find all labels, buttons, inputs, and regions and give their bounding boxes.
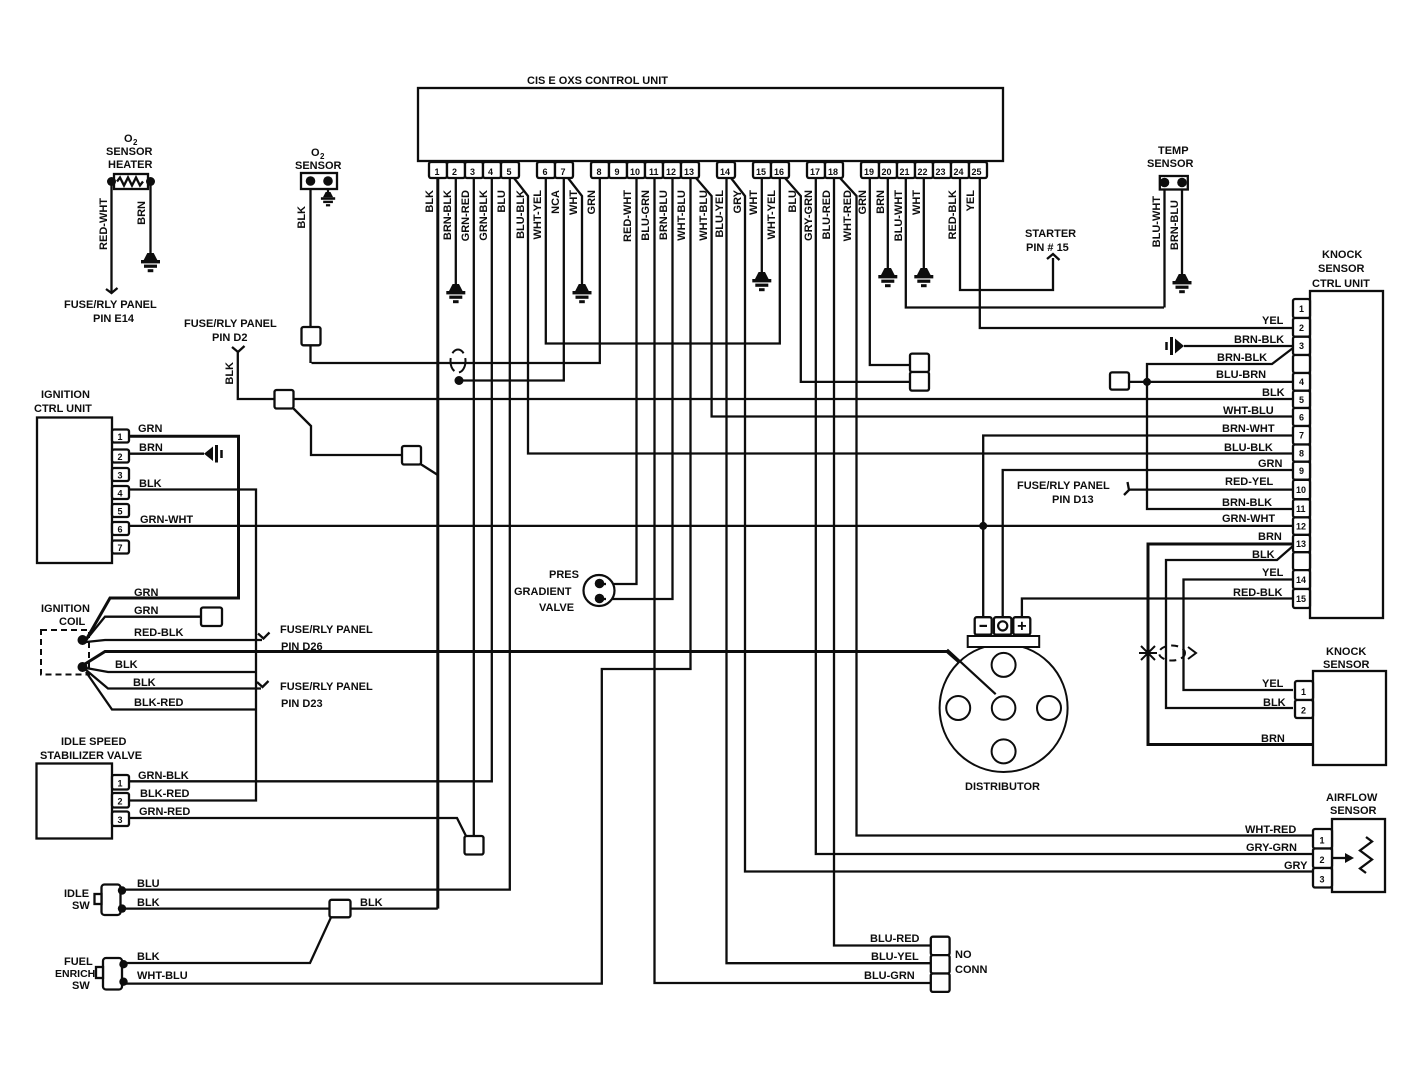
svg-text:19: 19	[864, 167, 874, 177]
svg-text:PIN D13: PIN D13	[1052, 494, 1094, 506]
control unit pin 15	[753, 162, 771, 178]
control unit pin 7	[555, 162, 573, 178]
control unit pin 12	[663, 162, 681, 178]
wire pin11 BLU-GRN to no-conn	[655, 178, 931, 983]
connector box on branch	[402, 446, 421, 465]
shield loop ellipse on O2 wire	[451, 350, 466, 373]
svg-text:BRN: BRN	[139, 442, 163, 454]
svg-text:GRN: GRN	[1258, 458, 1283, 470]
wire O2 BLK from connector to junction	[309, 345, 311, 363]
wire BLK coil to fuse panel D23	[86, 670, 261, 689]
svg-text:3: 3	[1299, 341, 1304, 351]
svg-text:GRN-BLK: GRN-BLK	[138, 770, 189, 782]
svg-text:FUSE/RLY PANEL: FUSE/RLY PANEL	[280, 624, 373, 636]
wire BRN knock pin13 to knock sensor	[1148, 544, 1313, 745]
svg-text:GRADIENT: GRADIENT	[514, 586, 572, 598]
svg-text:5: 5	[507, 167, 512, 177]
wire pin25 YEL to knock ctrl pin 2	[980, 178, 1293, 328]
svg-text:GRN: GRN	[134, 587, 159, 599]
svg-text:BLU: BLU	[137, 878, 160, 890]
starter arrow	[1047, 254, 1060, 260]
wire pin1 BLK vertical	[436, 178, 439, 909]
stabilizer valve pin 2	[112, 793, 129, 808]
svg-text:CONN: CONN	[955, 964, 987, 976]
wire branch from D2 connector down to pin1 BLK wire	[294, 409, 438, 476]
knock sensor ctrl unit	[1310, 249, 1383, 618]
svg-text:IDLE: IDLE	[64, 888, 89, 900]
svg-text:PIN D2: PIN D2	[212, 332, 247, 344]
wire BLK fuel enrich to idle BLK connector	[124, 917, 332, 963]
svg-text:PIN # 15: PIN # 15	[1026, 242, 1069, 254]
svg-text:9: 9	[1299, 466, 1304, 476]
control unit pin 21	[897, 162, 915, 178]
wire RED-BLK coil to fuse panel D26	[86, 640, 262, 642]
svg-text:GRN: GRN	[586, 190, 598, 215]
svg-text:TEMP: TEMP	[1158, 145, 1189, 157]
svg-text:13: 13	[684, 167, 694, 177]
knock ctrl pin 8	[1293, 445, 1310, 462]
svg-text:GRY-GRN: GRY-GRN	[803, 190, 815, 241]
wire pin7 NCA vertical	[459, 178, 564, 381]
svg-text:WHT-BLU: WHT-BLU	[676, 190, 688, 241]
svg-text:5: 5	[118, 507, 123, 517]
svg-text:WHT: WHT	[748, 190, 760, 215]
svg-text:22: 22	[918, 167, 928, 177]
control unit pin 6	[537, 162, 555, 178]
wire BLK coil to pin4 line	[86, 668, 256, 672]
node junction GRN-WHT with distributor minus wire	[979, 522, 987, 530]
wire BLU diagonal from pin16	[785, 178, 910, 382]
svg-text:24: 24	[954, 167, 964, 177]
wire WHT-RED diagonal from pin18 to airflow pin1	[840, 178, 1313, 836]
svg-text:FUSE/RLY PANEL: FUSE/RLY PANEL	[1017, 480, 1110, 492]
svg-text:WHT-BLU: WHT-BLU	[1223, 405, 1274, 417]
wire pin20 BRN to ground	[887, 178, 889, 268]
ignition pin 7	[112, 541, 129, 554]
svg-text:FUEL: FUEL	[64, 956, 93, 968]
svg-text:SW: SW	[72, 980, 90, 992]
svg-text:15: 15	[756, 167, 766, 177]
svg-text:SW: SW	[72, 900, 90, 912]
svg-text:7: 7	[118, 543, 123, 553]
svg-text:3: 3	[118, 471, 123, 481]
control unit pin 24	[951, 162, 969, 178]
stabilizer valve pin 1	[112, 775, 129, 790]
wire pin19 GRN to connector	[870, 178, 910, 365]
svg-text:BLU-YEL: BLU-YEL	[714, 190, 726, 238]
svg-text:O: O	[124, 133, 133, 145]
wire BRN-BLU temp to ground	[1181, 190, 1183, 275]
svg-text:IGNITION: IGNITION	[41, 389, 90, 401]
idle speed stabilizer valve	[37, 736, 143, 839]
noise suppressor knock pin3	[1167, 337, 1185, 355]
svg-text:10: 10	[630, 167, 640, 177]
svg-text:2: 2	[1299, 323, 1304, 333]
knock ctrl pin 5	[1293, 391, 1310, 408]
wire YEL knock pin14 to knock sensor pin1	[1184, 580, 1294, 691]
svg-text:SENSOR: SENSOR	[1147, 158, 1194, 170]
wire GRN-RED valve pin3 to connector	[129, 818, 466, 836]
knock ctrl pin 14	[1293, 570, 1310, 589]
idle switch	[64, 885, 126, 916]
wire GRY diagonal from pin14 to airflow pin3	[731, 178, 1313, 872]
svg-text:BLU-BRN: BLU-BRN	[1216, 369, 1266, 381]
ground O2 sensor	[327, 189, 329, 192]
knock ctrl blank pin	[1293, 552, 1310, 570]
svg-text:GRY: GRY	[1284, 860, 1308, 872]
svg-text:1: 1	[435, 167, 440, 177]
svg-text:IGNITION: IGNITION	[41, 603, 90, 615]
svg-text:STARTER: STARTER	[1025, 228, 1076, 240]
harness connector two-slot	[910, 354, 929, 391]
wire RED-YEL fuse D13 to knock pin10	[1129, 488, 1293, 490]
control unit pin 23	[933, 162, 951, 178]
svg-text:20: 20	[882, 167, 892, 177]
svg-text:RED-WHT: RED-WHT	[622, 190, 634, 242]
svg-text:16: 16	[774, 167, 784, 177]
svg-text:5: 5	[1299, 395, 1304, 405]
wire BRN from heater to ground	[149, 184, 151, 253]
svg-text:2: 2	[118, 797, 123, 807]
svg-text:WHT-BLU: WHT-BLU	[698, 190, 710, 241]
svg-text:21: 21	[900, 167, 910, 177]
svg-text:HEATER: HEATER	[108, 159, 152, 171]
svg-text:1: 1	[1320, 836, 1325, 846]
svg-text:BRN-BLK: BRN-BLK	[442, 190, 454, 240]
svg-text:KNOCK: KNOCK	[1326, 646, 1366, 658]
wire distributor center to knock ctrl pin 9	[1003, 470, 1293, 617]
connector box GRN-RED	[465, 836, 484, 855]
pres gradient valve	[514, 569, 615, 614]
knock ctrl pin 13	[1293, 535, 1310, 552]
connector box on O2 wire	[302, 327, 321, 345]
connector box on D2 line	[275, 390, 294, 409]
svg-text:GRN: GRN	[857, 190, 869, 215]
svg-text:CIS E OXS CONTROL UNIT: CIS E OXS CONTROL UNIT	[527, 75, 668, 87]
node shield drain dot	[455, 376, 464, 385]
wire BLK ign pin4 down to stabilizer valve pin2	[129, 490, 256, 801]
control unit pin 13	[681, 162, 699, 178]
ground temp sensor	[1173, 274, 1192, 293]
ignition pin 4	[112, 486, 129, 499]
wire BLK knock pin13 to knock sensor pin2	[1166, 546, 1293, 708]
svg-text:CTRL UNIT: CTRL UNIT	[34, 403, 92, 415]
wire pin3 GRN-RED vertical	[473, 178, 475, 836]
svg-text:ENRICH: ENRICH	[55, 968, 95, 980]
svg-text:PRES: PRES	[549, 569, 579, 581]
svg-text:BLK: BLK	[137, 951, 160, 963]
shielded cable marker on BRN wire	[1139, 644, 1196, 663]
svg-text:23: 23	[936, 167, 946, 177]
svg-text:O: O	[311, 147, 320, 159]
wire BLK from fuse panel D2 to knock ctrl pin 5	[238, 352, 1293, 399]
svg-text:YEL: YEL	[1262, 678, 1284, 690]
wire pin6 WHT-YEL link	[546, 178, 780, 344]
knock ctrl pin 12	[1293, 517, 1310, 535]
ground pin2	[446, 284, 465, 303]
noise suppressor on BRN wire	[204, 445, 222, 463]
svg-text:BLK: BLK	[224, 362, 236, 385]
svg-text:BLU-BLK: BLU-BLK	[515, 190, 527, 239]
connector box GRN	[201, 608, 222, 627]
svg-text:BLK: BLK	[139, 478, 162, 490]
svg-text:9: 9	[615, 167, 620, 177]
svg-text:BLK: BLK	[360, 897, 383, 909]
knock ctrl pin 4	[1293, 373, 1310, 391]
knock sensor	[1313, 646, 1386, 765]
svg-text:RED-BLK: RED-BLK	[947, 190, 959, 240]
wire pin24 RED-BLK to starter	[960, 178, 1053, 290]
svg-text:RED-BLK: RED-BLK	[134, 627, 184, 639]
svg-text:SENSOR: SENSOR	[295, 160, 342, 172]
control unit pin 10	[627, 162, 645, 178]
svg-text:12: 12	[666, 167, 676, 177]
svg-text:SENSOR: SENSOR	[1318, 263, 1365, 275]
control unit pin 16	[771, 162, 789, 178]
svg-text:PIN D23: PIN D23	[281, 698, 323, 710]
ignition control unit	[34, 389, 112, 563]
control unit pin 19	[861, 162, 879, 178]
wire BLU-BLK diagonal from pin5 to knock pin 8	[514, 178, 1293, 454]
knock ctrl pin 7	[1293, 426, 1310, 445]
svg-text:BRN-BLU: BRN-BLU	[1169, 200, 1181, 250]
svg-text:25: 25	[972, 167, 982, 177]
wire pin4 GRN-BLK vertical to valve pin1	[129, 178, 492, 781]
svg-text:14: 14	[720, 167, 730, 177]
svg-text:GRN: GRN	[134, 605, 159, 617]
control unit pin 14	[717, 162, 735, 178]
ignition pin 2	[112, 450, 129, 463]
knock ctrl pin 15	[1293, 589, 1310, 608]
svg-text:RED-WHT: RED-WHT	[98, 198, 110, 250]
svg-text:WHT-YEL: WHT-YEL	[532, 190, 544, 240]
O2 sensor	[295, 147, 342, 189]
svg-text:WHT-RED: WHT-RED	[842, 190, 854, 241]
svg-text:BRN: BRN	[1258, 531, 1282, 543]
airflow sensor	[1326, 792, 1385, 892]
svg-text:1: 1	[118, 779, 123, 789]
CIS E OXS control unit U1	[418, 75, 1003, 161]
wire GRN ign pin1 to coil	[86, 436, 239, 640]
harness connector single	[1110, 372, 1129, 389]
ignition pin 1	[112, 430, 129, 443]
knock ctrl pin 2	[1293, 318, 1310, 337]
svg-text:GRN-RED: GRN-RED	[460, 190, 472, 241]
svg-text:12: 12	[1296, 522, 1306, 532]
svg-text:BLK-RED: BLK-RED	[140, 788, 190, 800]
svg-text:PIN E14: PIN E14	[93, 313, 135, 325]
control unit pin 22	[915, 162, 933, 178]
svg-text:BLK: BLK	[1263, 697, 1286, 709]
svg-text:YEL: YEL	[1262, 567, 1284, 579]
knock ctrl pin 1	[1293, 299, 1310, 318]
svg-text:GRY-GRN: GRY-GRN	[1246, 842, 1297, 854]
wire pin12 BRN-BLU to pres gradient valve	[606, 178, 673, 599]
control unit pin 11	[645, 162, 663, 178]
fuel enrich switch	[55, 956, 128, 992]
svg-text:BRN-BLK: BRN-BLK	[1217, 352, 1267, 364]
svg-text:17: 17	[810, 167, 820, 177]
temp sensor	[1147, 145, 1194, 190]
stabilizer valve pin 3	[112, 812, 129, 827]
airflow pin 3	[1313, 868, 1332, 888]
svg-text:BLU-GRN: BLU-GRN	[864, 970, 915, 982]
wire distributor plus to knock ctrl pin 15	[1022, 599, 1293, 618]
svg-text:FUSE/RLY PANEL: FUSE/RLY PANEL	[280, 681, 373, 693]
svg-text:18: 18	[828, 167, 838, 177]
svg-text:SENSOR: SENSOR	[106, 146, 153, 158]
wire valve top dot stub	[600, 583, 607, 585]
svg-text:BLU-WHT: BLU-WHT	[893, 190, 905, 242]
svg-text:6: 6	[543, 167, 548, 177]
wire pin15 WHT to ground	[761, 178, 763, 272]
ground pin15	[752, 272, 771, 291]
svg-text:BLU-RED: BLU-RED	[870, 933, 920, 945]
wire pin22 WHT to ground	[923, 178, 925, 268]
svg-text:BLK: BLK	[115, 659, 138, 671]
wire WHT-BLU second diagonal from pin13 to knock pin 6	[696, 178, 1293, 417]
svg-text:GRN-WHT: GRN-WHT	[140, 514, 193, 526]
svg-text:3: 3	[470, 167, 475, 177]
svg-text:SENSOR: SENSOR	[1330, 805, 1377, 817]
svg-text:DISTRIBUTOR: DISTRIBUTOR	[965, 781, 1040, 793]
svg-text:14: 14	[1296, 575, 1306, 585]
svg-text:BRN-BLU: BRN-BLU	[658, 190, 670, 240]
no-conn connector	[931, 937, 988, 992]
wire GRN coil to connector box	[86, 617, 201, 640]
svg-text:SENSOR: SENSOR	[1323, 659, 1370, 671]
wire RED-WHT from heater to fuse panel E14	[110, 184, 112, 293]
knock ctrl pin 10	[1293, 480, 1310, 500]
knock ctrl pin 3	[1293, 337, 1310, 355]
wire BLK from O2 sensor down to connector	[309, 189, 311, 327]
svg-text:WHT: WHT	[911, 190, 923, 215]
ground pin20	[878, 268, 897, 287]
svg-text:7: 7	[1299, 431, 1304, 441]
svg-text:BLU-BLK: BLU-BLK	[1224, 442, 1273, 454]
airflow pin 1	[1313, 829, 1332, 849]
ignition pin 3	[112, 468, 129, 481]
wire pin5 BLU vertical to idle switch	[122, 178, 510, 890]
svg-text:FUSE/RLY PANEL: FUSE/RLY PANEL	[64, 299, 157, 311]
control unit pin 18	[825, 162, 843, 178]
svg-text:8: 8	[1299, 449, 1304, 459]
ignition coil	[41, 603, 90, 675]
svg-text:6: 6	[1299, 412, 1304, 422]
wire GRN-WHT ign pin6 to knock ctrl pin 12	[129, 525, 1293, 527]
svg-text:1: 1	[118, 432, 123, 442]
svg-text:VALVE: VALVE	[539, 602, 574, 614]
svg-text:8: 8	[597, 167, 602, 177]
svg-text:GRN-BLK: GRN-BLK	[478, 190, 490, 241]
wire BLK-RED coil joins pin4 vertical	[86, 672, 256, 710]
ignition pin 5	[112, 504, 129, 517]
svg-text:3: 3	[1320, 875, 1325, 885]
wire BRN-BLK link knock pin3 to knock pin11	[1147, 348, 1293, 509]
svg-text:BRN: BRN	[136, 201, 148, 225]
svg-text:11: 11	[1296, 504, 1306, 514]
wire BLU-BRN connector to knock pin4	[1129, 381, 1293, 383]
svg-text:BRN-BLK: BRN-BLK	[1222, 497, 1272, 509]
wire pin8 GRN vertical to O2 sensor line	[312, 178, 600, 363]
control unit pin 8	[591, 162, 609, 178]
svg-text:GRN: GRN	[138, 423, 163, 435]
control unit pin 25	[969, 162, 987, 178]
svg-text:BLU-RED: BLU-RED	[821, 190, 833, 240]
svg-text:BLU-YEL: BLU-YEL	[871, 951, 919, 963]
control unit pin 3	[465, 162, 483, 178]
wire BRN ign pin2 to suppressor	[129, 453, 204, 455]
svg-text:1: 1	[1299, 304, 1304, 314]
svg-text:BLK: BLK	[296, 206, 308, 229]
svg-text:1: 1	[1301, 687, 1306, 697]
svg-text:2: 2	[452, 167, 457, 177]
svg-text:WHT: WHT	[568, 190, 580, 215]
wire pin17 GRY-GRN to airflow pin2	[816, 178, 1313, 854]
wire pin18 BLU-RED to no-conn	[834, 178, 931, 946]
svg-text:4: 4	[1299, 377, 1304, 387]
svg-text:BLK: BLK	[1262, 387, 1285, 399]
svg-text:BRN: BRN	[875, 190, 887, 214]
knock sensor pin 2	[1295, 700, 1313, 718]
knock ctrl pin 11	[1293, 499, 1310, 517]
svg-text:GRN-WHT: GRN-WHT	[1222, 513, 1275, 525]
control unit pin 9	[609, 162, 627, 178]
wire pin21 BLU-WHT to temp sensor	[906, 178, 1164, 308]
control unit pin 20	[879, 162, 897, 178]
control unit pin 4	[483, 162, 501, 178]
ground heater BRN	[141, 253, 160, 272]
svg-text:YEL: YEL	[965, 190, 977, 212]
svg-text:STABILIZER VALVE: STABILIZER VALVE	[40, 750, 142, 762]
ground WHT wire	[573, 284, 592, 303]
svg-text:AIRFLOW: AIRFLOW	[1326, 792, 1378, 804]
svg-text:BLK-RED: BLK-RED	[134, 697, 184, 709]
svg-text:BLU-WHT: BLU-WHT	[1151, 196, 1163, 248]
svg-text:RED-BLK: RED-BLK	[1233, 587, 1283, 599]
knock sensor pin 1	[1295, 681, 1313, 700]
connector box BLK	[330, 900, 351, 918]
control unit pin 17	[807, 162, 825, 178]
control unit pin 1	[429, 162, 447, 178]
wire WHT diagonal from pin7 to ground	[568, 178, 582, 284]
svg-text:BRN-WHT: BRN-WHT	[1222, 423, 1275, 435]
O2 sensor heater R1	[106, 133, 155, 189]
svg-text:BLK: BLK	[137, 897, 160, 909]
ground pin22	[914, 268, 933, 287]
svg-text:15: 15	[1296, 594, 1306, 604]
svg-text:BRN-BLK: BRN-BLK	[1234, 334, 1284, 346]
svg-text:13: 13	[1296, 539, 1306, 549]
wire BLK idle switch to connector	[122, 907, 438, 909]
svg-text:BLK: BLK	[133, 677, 156, 689]
distributor	[940, 617, 1068, 793]
knock ctrl pin 6	[1293, 408, 1310, 426]
control unit pin 2	[447, 162, 465, 178]
svg-text:4: 4	[118, 489, 123, 499]
svg-text:2: 2	[1301, 706, 1306, 716]
svg-text:BLU-GRN: BLU-GRN	[640, 190, 652, 241]
svg-text:BLU: BLU	[496, 190, 508, 213]
svg-text:GRN-RED: GRN-RED	[139, 806, 190, 818]
svg-text:2: 2	[118, 452, 123, 462]
svg-text:RED-YEL: RED-YEL	[1225, 476, 1274, 488]
svg-text:10: 10	[1296, 485, 1306, 495]
wire valve bottom dot stub	[600, 598, 607, 600]
wire coil to distributor rotor	[85, 652, 996, 695]
knock ctrl pin 9	[1293, 462, 1310, 480]
svg-text:4: 4	[488, 167, 493, 177]
